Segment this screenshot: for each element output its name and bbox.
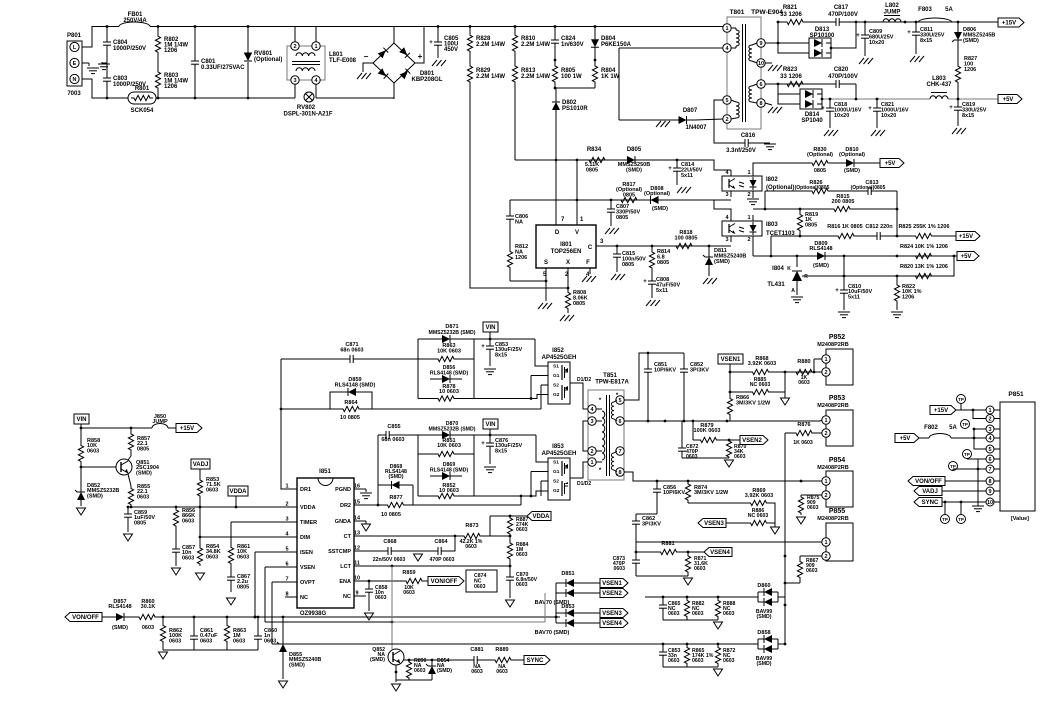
wire — [956, 409, 986, 411]
diode D804 — [594, 27, 596, 40]
wire center tap — [583, 421, 588, 451]
svg-text:D807: D807 — [683, 108, 698, 114]
ground — [172, 568, 181, 575]
svg-text:5: 5 — [725, 98, 728, 104]
svg-text:15: 15 — [354, 500, 360, 506]
fuse FB01 — [119, 22, 150, 26]
svg-text:N: N — [73, 77, 77, 83]
ground — [279, 681, 288, 688]
netbox VIN — [483, 419, 498, 429]
svg-text:VDDA: VDDA — [300, 505, 316, 511]
svg-text:ENA: ENA — [339, 579, 351, 585]
wire DIM row — [200, 536, 290, 538]
netbox VDDA — [228, 486, 248, 496]
svg-text:M2408P2RB: M2408P2RB — [817, 403, 849, 409]
svg-text:2: 2 — [824, 431, 827, 437]
svg-text:8x15: 8x15 — [495, 448, 507, 454]
ground — [703, 278, 708, 284]
svg-text:3M/3KV 1/2W: 3M/3KV 1/2W — [694, 490, 729, 496]
wire DR2 column — [366, 435, 378, 505]
svg-text:−: − — [364, 52, 369, 61]
wire — [636, 575, 688, 577]
wire X pin — [567, 268, 569, 288]
svg-text:0805: 0805 — [137, 446, 149, 452]
resistor R803 — [155, 62, 160, 98]
svg-text:D1/D2: D1/D2 — [577, 481, 591, 487]
svg-text:SSTCMP: SSTCMP — [328, 549, 351, 555]
capacitor C805 — [437, 27, 439, 43]
diode D871 — [418, 338, 430, 340]
svg-text:470P/100V: 470P/100V — [828, 74, 858, 80]
resistor R821 — [778, 19, 812, 24]
resistor R817 — [617, 197, 641, 202]
flag VSEN3 — [580, 612, 600, 614]
svg-text:0603: 0603 — [182, 518, 194, 524]
svg-text:TIMER: TIMER — [300, 520, 317, 526]
svg-text:200 0805: 200 0805 — [832, 199, 855, 205]
svg-text:C881: C881 — [470, 647, 483, 653]
wire GNDA ground — [365, 521, 367, 524]
svg-text:3: 3 — [988, 427, 991, 433]
svg-text:1K 1W: 1K 1W — [601, 74, 620, 80]
svg-text:T851: T851 — [603, 373, 617, 379]
transformer T851 — [588, 390, 624, 480]
wire VSEN column — [264, 567, 266, 622]
svg-text:(SMD): (SMD) — [652, 206, 668, 212]
svg-text:NA: NA — [515, 219, 523, 225]
svg-text:R810: R810 — [521, 36, 536, 42]
svg-text:R828: R828 — [476, 36, 491, 42]
resistor R872 — [715, 644, 720, 667]
resistor R827 — [955, 50, 960, 99]
svg-text:+5V: +5V — [885, 161, 896, 167]
svg-text:DR1: DR1 — [300, 487, 311, 493]
svg-text:C812 220n: C812 220n — [865, 224, 893, 230]
svg-text:TL431: TL431 — [767, 282, 785, 288]
wire — [945, 480, 986, 482]
capacitor C813 — [834, 190, 868, 192]
flag +5V — [957, 252, 979, 261]
wire base row — [404, 659, 432, 661]
svg-text:AP4525GEH: AP4525GEH — [542, 355, 577, 361]
wire V pin column — [576, 160, 578, 225]
svg-text:0805: 0805 — [237, 584, 249, 590]
svg-text:S2: S2 — [553, 479, 559, 485]
resistor R805 — [552, 60, 557, 88]
test point — [957, 395, 966, 404]
wire +15V rail — [856, 21, 998, 23]
capacitor C856 — [656, 481, 658, 489]
svg-text:+5V: +5V — [900, 436, 911, 442]
choke L801 — [287, 46, 325, 80]
wire OVPT column — [271, 582, 273, 644]
wire — [816, 371, 822, 373]
wire — [896, 191, 898, 236]
wire — [635, 542, 637, 552]
diode D868 — [377, 485, 379, 505]
svg-text:(Optional): (Optional) — [644, 191, 670, 197]
diode D805 — [614, 159, 627, 161]
zener D854 — [431, 660, 433, 666]
capacitor C817 — [812, 21, 836, 23]
wire — [753, 163, 806, 170]
capacitor C853 — [489, 339, 491, 346]
capacitor C855 — [378, 434, 386, 436]
svg-text:R859: R859 — [402, 570, 415, 576]
svg-text:1206: 1206 — [164, 48, 178, 54]
svg-text:(SMD): (SMD) — [389, 474, 404, 480]
svg-text:+: + — [949, 105, 953, 111]
svg-text:I851: I851 — [319, 469, 331, 475]
svg-text:+5V: +5V — [1003, 97, 1014, 103]
resistor R890 — [406, 660, 411, 680]
wire — [778, 22, 809, 53]
optocoupler I802 — [722, 176, 762, 191]
diode D859 — [281, 408, 330, 410]
wire OVPT long row — [272, 643, 758, 645]
svg-text:[Value]: [Value] — [1011, 516, 1029, 522]
ground — [102, 62, 107, 63]
svg-text:0603: 0603 — [694, 566, 706, 572]
svg-text:5: 5 — [618, 398, 621, 404]
flag VSEN4 — [680, 551, 704, 553]
diode D809 — [806, 255, 817, 257]
svg-text:(Optional): (Optional) — [839, 152, 865, 158]
wire — [752, 191, 754, 198]
thermistor R801 — [128, 92, 156, 104]
svg-text:0603: 0603 — [734, 454, 746, 460]
resistor R823 — [778, 81, 812, 86]
ground — [677, 187, 682, 193]
svg-text:S2: S2 — [553, 383, 559, 389]
svg-text:TPW-E817A: TPW-E817A — [595, 380, 629, 386]
svg-text:CT: CT — [344, 534, 352, 540]
svg-text:2: 2 — [285, 502, 288, 508]
svg-text:8x15: 8x15 — [495, 352, 507, 358]
wire R853 column — [199, 497, 201, 546]
wire — [951, 437, 986, 439]
resistor R880 — [792, 369, 816, 374]
svg-text:VADJ: VADJ — [922, 489, 938, 495]
svg-text:8: 8 — [759, 101, 762, 107]
wire pin5 to C816 — [714, 100, 741, 143]
svg-text:0805: 0805 — [623, 192, 635, 198]
ground — [605, 228, 610, 234]
dual diode D853 — [555, 617, 557, 623]
svg-text:VADJ: VADJ — [193, 462, 209, 468]
resistor R873 — [460, 533, 484, 538]
ground — [784, 392, 786, 398]
ground — [432, 60, 437, 66]
transformer T801 — [727, 17, 761, 129]
transistor Q852 — [388, 649, 404, 665]
svg-text:10 0805: 10 0805 — [340, 415, 360, 421]
svg-text:X: X — [566, 260, 570, 266]
capacitor C860 — [257, 617, 259, 636]
svg-text:T801: T801 — [730, 9, 745, 16]
svg-text:SP1040: SP1040 — [801, 118, 823, 124]
varistor RV801 — [247, 27, 249, 54]
wire TL431 ref row — [802, 275, 810, 277]
svg-text:(SMD): (SMD) — [626, 167, 642, 173]
svg-text:VSEN3: VSEN3 — [704, 521, 724, 527]
svg-text:0603: 0603 — [516, 582, 528, 588]
svg-text:1206: 1206 — [164, 84, 178, 90]
svg-text:(Optional)0805: (Optional)0805 — [851, 185, 886, 191]
wire — [973, 410, 986, 419]
resistor R824 — [897, 253, 950, 258]
svg-text:8: 8 — [285, 592, 288, 598]
capacitor C868 — [384, 550, 388, 552]
capacitor C861 — [193, 617, 195, 636]
svg-text:0805: 0805 — [657, 260, 669, 266]
svg-text:VSEN4: VSEN4 — [602, 621, 622, 627]
optocoupler I803 — [722, 221, 762, 236]
wire — [942, 490, 986, 492]
ground — [227, 598, 236, 605]
resistor R802 — [155, 27, 160, 63]
dual diode D858 — [757, 639, 759, 649]
wire R829 column down — [470, 88, 568, 288]
svg-text:10P/6KV: 10P/6KV — [663, 490, 685, 496]
resistor R808 — [565, 288, 570, 313]
wire — [409, 679, 432, 681]
svg-text:1: 1 — [747, 215, 750, 221]
wire F pin — [589, 268, 591, 274]
svg-text:V: V — [575, 230, 579, 236]
svg-text:VIN: VIN — [485, 325, 495, 331]
resistor R865 — [684, 644, 689, 667]
resistor R810 — [512, 27, 517, 61]
svg-text:AP4525GEH: AP4525GEH — [542, 451, 577, 457]
svg-text:+15V: +15V — [934, 408, 948, 414]
wire — [474, 491, 548, 496]
svg-text:68n 0603: 68n 0603 — [381, 437, 404, 443]
svg-text:R876: R876 — [797, 422, 810, 428]
svg-text:0603: 0603 — [142, 625, 154, 631]
svg-text:(SMD): (SMD) — [963, 38, 979, 44]
svg-text:RLS4148 (SMD): RLS4148 (SMD) — [430, 371, 469, 377]
ground — [859, 58, 864, 64]
svg-text:11: 11 — [354, 561, 360, 567]
svg-text:0603: 0603 — [516, 552, 528, 558]
wire C pin row — [596, 245, 731, 247]
wire VSEN row — [265, 566, 290, 568]
svg-text:250V/4A: 250V/4A — [123, 18, 147, 24]
svg-text:NC 0603: NC 0603 — [750, 382, 771, 388]
resistor R874 — [685, 481, 690, 503]
svg-text:1N4007: 1N4007 — [685, 125, 707, 131]
svg-text:(Optional): (Optional) — [254, 57, 282, 63]
svg-text:C816: C816 — [741, 133, 756, 139]
svg-text:5x11: 5x11 — [848, 294, 860, 300]
resistor R852 — [418, 493, 474, 498]
wire OVPT row — [272, 581, 290, 583]
svg-text:7: 7 — [285, 577, 288, 583]
wire top rail — [150, 26, 727, 28]
svg-text:0805: 0805 — [622, 262, 634, 268]
svg-text:VSEN4: VSEN4 — [710, 550, 730, 556]
svg-text:PGND: PGND — [335, 487, 351, 493]
ground — [392, 684, 401, 691]
wire — [714, 200, 731, 215]
svg-text:0603: 0603 — [474, 584, 486, 590]
svg-text:SYNC: SYNC — [922, 500, 939, 506]
wire — [729, 364, 731, 392]
svg-text:3.92K 0603: 3.92K 0603 — [748, 361, 776, 367]
svg-text:3P/3KV: 3P/3KV — [690, 367, 709, 373]
ground — [910, 56, 915, 62]
resistor R858 — [78, 440, 83, 467]
svg-text:+: + — [418, 52, 423, 61]
svg-text:2: 2 — [824, 370, 827, 376]
resistor R828 — [467, 27, 472, 61]
svg-text:+: + — [481, 441, 485, 447]
svg-text:VON/OFF: VON/OFF — [915, 479, 942, 485]
wire pin4 clamp — [619, 47, 723, 49]
wire — [555, 583, 557, 617]
svg-text:1: 1 — [590, 460, 593, 466]
svg-text:450V: 450V — [444, 47, 458, 53]
svg-text:+: + — [907, 30, 911, 36]
svg-text:D851: D851 — [561, 571, 574, 577]
svg-text:10: 10 — [987, 500, 993, 506]
svg-text:1000P/250V: 1000P/250V — [113, 46, 146, 52]
gate network ch1 frame — [417, 339, 419, 399]
svg-text:C803: C803 — [113, 76, 128, 82]
wire — [541, 384, 548, 386]
wire VDDA row — [131, 506, 290, 508]
wire — [977, 459, 979, 506]
svg-text:0603: 0603 — [182, 555, 194, 561]
capacitor C818 — [829, 99, 831, 108]
transistor Q851 — [116, 459, 132, 475]
svg-text:0805: 0805 — [586, 167, 598, 173]
svg-text:100K 0603: 100K 0603 — [694, 428, 721, 434]
capacitor C865 — [662, 597, 664, 605]
wire DR1 column — [281, 359, 285, 489]
capacitor C819 — [957, 99, 959, 107]
dual diode D813 — [809, 38, 831, 58]
wire DR1 gate row — [372, 408, 541, 410]
svg-text:R829: R829 — [476, 68, 491, 74]
svg-text:D853: D853 — [561, 604, 574, 610]
svg-text:30.1K: 30.1K — [141, 604, 156, 610]
svg-text:SYNC: SYNC — [527, 658, 544, 664]
svg-text:P6KE150A: P6KE150A — [601, 42, 632, 48]
ground — [196, 573, 205, 580]
svg-text:3: 3 — [285, 517, 288, 523]
wire — [484, 535, 510, 537]
capacitor C867 — [230, 566, 232, 577]
svg-text:1: 1 — [824, 357, 827, 363]
resistor R814 — [649, 246, 654, 274]
svg-text:G2: G2 — [553, 488, 560, 494]
capacitor C807 — [610, 200, 612, 209]
svg-text:6: 6 — [759, 82, 762, 88]
svg-text:470P 0603: 470P 0603 — [429, 557, 454, 563]
flag SYNC — [516, 659, 524, 661]
svg-text:L801: L801 — [329, 52, 343, 58]
capacitor C810 — [843, 256, 845, 290]
svg-text:0805: 0805 — [805, 222, 817, 228]
svg-text:M2408P2RB: M2408P2RB — [817, 465, 849, 471]
svg-text:(SMD): (SMD) — [87, 493, 103, 499]
flag VSEN2 — [580, 592, 600, 594]
capacitor C871 — [281, 358, 350, 360]
flag +15V — [998, 18, 1024, 27]
svg-text:+5V: +5V — [961, 254, 972, 260]
svg-text:1n/630V: 1n/630V — [561, 42, 584, 48]
svg-text:FB01: FB01 — [128, 12, 143, 18]
svg-text:0603: 0603 — [806, 568, 818, 574]
wire V row — [510, 199, 731, 201]
svg-text:M2408P2RB: M2408P2RB — [817, 516, 849, 522]
resistor R885 — [730, 391, 749, 393]
svg-text:F802: F802 — [924, 425, 938, 431]
wire — [663, 666, 718, 668]
dual diode D814 — [800, 89, 822, 109]
wire D pin — [555, 160, 557, 225]
svg-text:5: 5 — [285, 547, 288, 553]
wire — [777, 639, 779, 649]
wire pin9 row — [765, 42, 809, 44]
svg-text:SCK054: SCK054 — [131, 108, 154, 114]
svg-text:R881: R881 — [661, 541, 674, 547]
wire PGND ground — [365, 489, 367, 492]
resistor R830 — [806, 160, 834, 165]
svg-text:RV802: RV802 — [297, 105, 316, 111]
wire — [531, 471, 548, 473]
svg-text:2: 2 — [824, 554, 827, 560]
wire — [452, 536, 455, 551]
wire — [636, 513, 657, 515]
wire P855 pin1 row — [636, 541, 822, 543]
wire — [395, 665, 397, 682]
svg-text:10: 10 — [758, 61, 764, 67]
svg-text:G1: G1 — [553, 373, 560, 379]
ground — [684, 578, 693, 585]
svg-text:TP: TP — [958, 397, 964, 402]
wire — [489, 429, 491, 435]
svg-text:33 1206: 33 1206 — [780, 74, 802, 80]
svg-text:5x11: 5x11 — [681, 173, 693, 179]
svg-text:10K 0603: 10K 0603 — [437, 443, 461, 449]
svg-text:0603: 0603 — [668, 658, 680, 664]
svg-text:PS1010R: PS1010R — [562, 106, 588, 112]
ground — [871, 130, 876, 136]
resistor R863A — [224, 617, 229, 650]
svg-text:MMSZ5232B (SMD): MMSZ5232B (SMD) — [429, 427, 476, 433]
wire VON/OFF row — [162, 616, 560, 618]
wire pin8 long row — [624, 472, 822, 481]
svg-text:R801: R801 — [135, 86, 150, 92]
svg-text:M2408P2RB: M2408P2RB — [817, 342, 849, 348]
wire — [413, 504, 521, 506]
wire — [81, 466, 116, 468]
svg-text:0603: 0603 — [206, 554, 218, 560]
wire I853 out — [570, 462, 588, 478]
ground — [414, 550, 418, 552]
flag +15V — [168, 427, 176, 429]
svg-text:+: + — [429, 40, 433, 46]
ground — [159, 652, 168, 659]
resistor R818 — [668, 243, 700, 248]
netbox VIN — [483, 322, 498, 332]
ground — [791, 296, 803, 298]
wire — [950, 255, 957, 257]
capacitor C811 — [915, 22, 917, 32]
